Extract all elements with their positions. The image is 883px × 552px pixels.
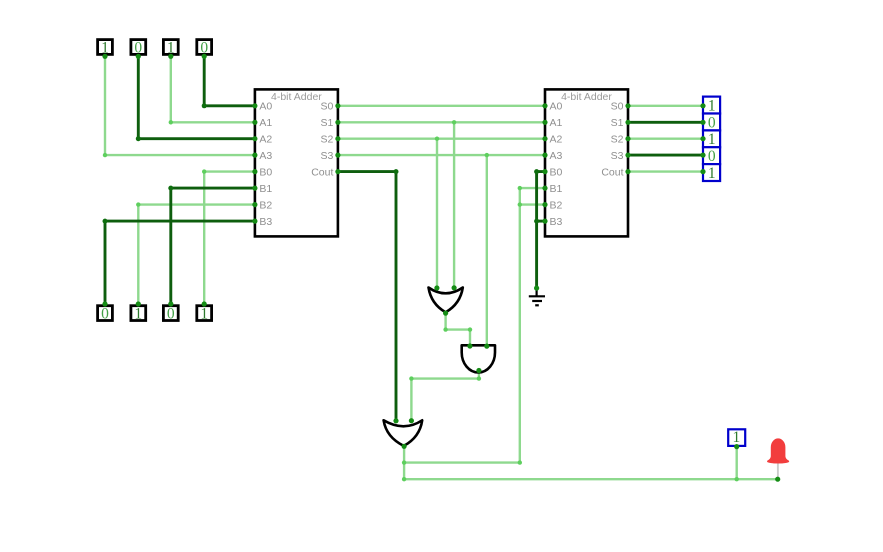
svg-text:Cout: Cout [311, 166, 333, 178]
svg-text:A0: A0 [259, 101, 272, 113]
svg-text:0: 0 [101, 306, 109, 323]
svg-text:1: 1 [200, 306, 208, 323]
svg-text:B0: B0 [259, 166, 272, 178]
svg-text:B1: B1 [550, 183, 563, 195]
svg-text:B1: B1 [259, 183, 272, 195]
svg-text:A3: A3 [259, 150, 272, 162]
svg-text:B2: B2 [259, 199, 272, 211]
svg-text:0: 0 [167, 306, 175, 323]
svg-text:S3: S3 [611, 150, 624, 162]
svg-text:S2: S2 [611, 133, 624, 145]
svg-text:1: 1 [708, 131, 716, 148]
svg-text:S0: S0 [321, 101, 334, 113]
svg-text:B3: B3 [259, 216, 272, 228]
svg-text:B2: B2 [550, 199, 563, 211]
svg-text:S1: S1 [321, 117, 334, 129]
svg-text:A1: A1 [259, 117, 272, 129]
svg-text:A2: A2 [259, 133, 272, 145]
svg-text:1: 1 [134, 306, 142, 323]
svg-text:0: 0 [708, 148, 716, 165]
svg-text:1: 1 [708, 97, 716, 114]
svg-text:B3: B3 [550, 216, 563, 228]
svg-text:S0: S0 [611, 101, 624, 113]
svg-text:S2: S2 [321, 133, 334, 145]
svg-text:0: 0 [708, 114, 716, 131]
svg-text:S3: S3 [321, 150, 334, 162]
svg-text:Cout: Cout [601, 166, 623, 178]
svg-text:B0: B0 [550, 166, 563, 178]
svg-text:4-bit Adder: 4-bit Adder [271, 91, 322, 103]
svg-text:A0: A0 [550, 101, 563, 113]
svg-text:S1: S1 [611, 117, 624, 129]
svg-text:1: 1 [708, 165, 716, 182]
svg-text:1: 1 [733, 429, 741, 446]
svg-text:A1: A1 [550, 117, 563, 129]
svg-text:A3: A3 [550, 150, 563, 162]
svg-text:4-bit Adder: 4-bit Adder [561, 91, 612, 103]
svg-text:A2: A2 [550, 133, 563, 145]
